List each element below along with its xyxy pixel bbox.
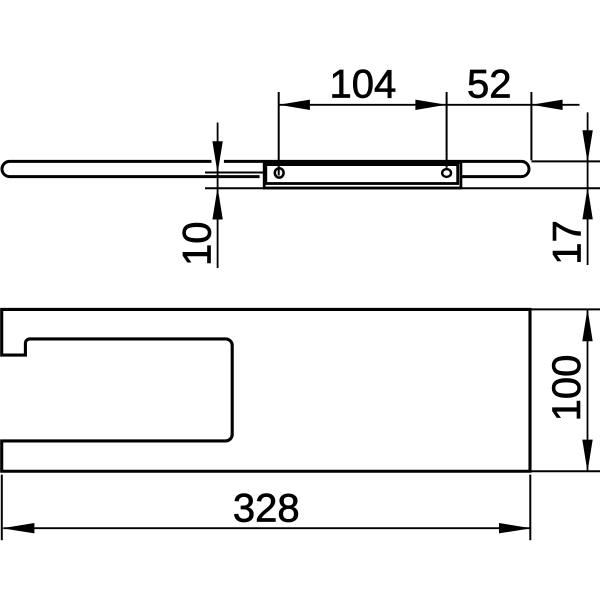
arrow 328 left: [2, 523, 34, 533]
left screw hole: [275, 168, 284, 177]
gap in rail top line for dim-10 arrow: [212, 158, 224, 165]
arrow 104 right: [415, 100, 446, 110]
dimension line 10 (vertical shaft): [217, 123, 219, 269]
extension line plan bottom right (dim 100): [530, 470, 600, 472]
arrow 10 upper: [212, 141, 222, 173]
arrow 17 upper: [582, 130, 592, 162]
extension line plan top right (dim 100): [530, 308, 600, 310]
svg-text:328: 328: [233, 486, 300, 530]
svg-text:52: 52: [467, 63, 512, 107]
extension line plan left (dim 328): [1, 475, 3, 541]
extension line upper (dim 10): [205, 172, 264, 174]
white break of rail bottom line left of bracket: [260, 174, 263, 179]
extension line plan right (dim 328): [529, 475, 531, 541]
extension line left hole (dim 104): [278, 92, 280, 176]
shelf rail side view (stadium bar): [2, 161, 529, 176]
arrow 104 left: [279, 100, 310, 110]
arrow 100 top: [582, 309, 592, 341]
dimension line 100: [587, 310, 589, 470]
wall bracket back plate: [264, 162, 461, 188]
dimension line 328: [3, 527, 530, 529]
extension line lower (dim 10 / 17): [205, 187, 600, 189]
arrow 10 lower: [212, 187, 222, 219]
svg-text:10: 10: [175, 221, 219, 266]
dimension line 17 (vertical shaft): [587, 112, 589, 265]
dimension line 104/52: [279, 104, 580, 106]
wall bracket front plate: [266, 165, 458, 184]
extension line right hole (dim 104/52): [446, 92, 448, 168]
svg-text:104: 104: [330, 62, 397, 106]
arrow 52 right outside: [532, 100, 563, 110]
plan view outline with recess cutout: [2, 309, 530, 471]
right screw hole: [442, 169, 451, 177]
svg-text:17: 17: [545, 220, 589, 265]
arrow 100 bottom: [582, 440, 592, 472]
extension line rail right end (dim 52): [530, 92, 532, 160]
extension line rail top right (dim 17): [532, 160, 600, 162]
svg-text:100: 100: [545, 355, 589, 422]
arrow 328 right: [499, 523, 531, 533]
arrow 17 lower: [582, 187, 592, 219]
